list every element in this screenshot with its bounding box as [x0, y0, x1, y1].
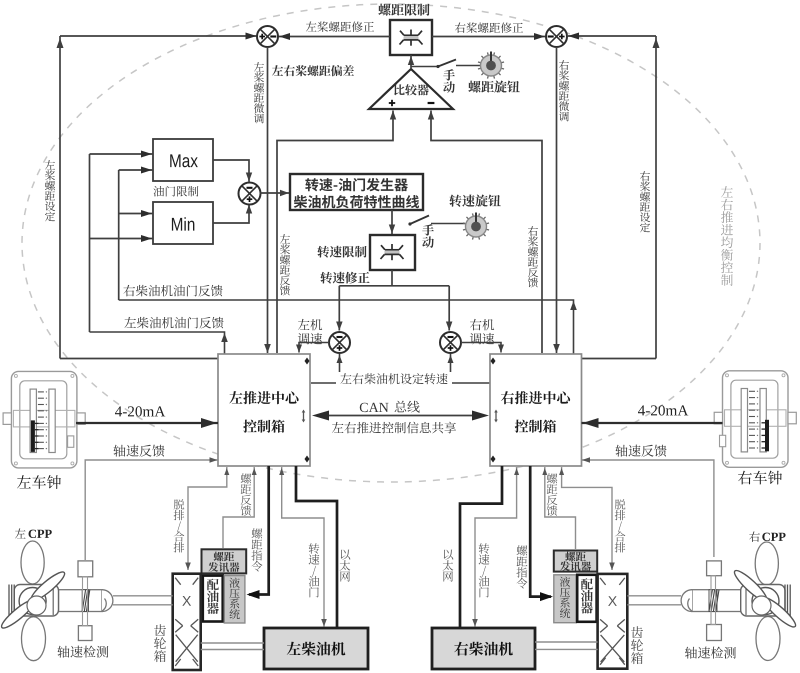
wire 左桨螺距修正 [279, 33, 391, 40]
sensor hatch right [709, 590, 719, 612]
block 转速-油门发生器 / 柴油机负荷特性曲线 [290, 174, 423, 210]
wire 螺距指令 left (thick) [247, 466, 269, 599]
knob 转速旋钮 [463, 213, 489, 240]
label 左桨螺距修正 [306, 21, 374, 32]
propeller left CPP swept blades [0, 569, 68, 632]
wire comparator minus input from right pitch feedback [428, 111, 542, 354]
label 螺距反馈 right [547, 473, 558, 516]
label 左 CPP [15, 528, 52, 538]
summing junction 右机调速 [440, 332, 461, 353]
propeller hub block right [741, 585, 791, 617]
wire throttle junction output [260, 190, 291, 196]
knob 螺距旋钮 [478, 52, 504, 79]
wire Min output [213, 205, 252, 224]
wire 右桨螺距修正 [432, 33, 546, 40]
label 螺距指令 right [516, 545, 527, 588]
label 以太网 right [443, 550, 454, 582]
wire 左机调速 setpoint riser [337, 354, 343, 383]
block 右柴油机 [432, 628, 535, 669]
label 轴速反馈 right [615, 445, 666, 457]
wire generator to speed limit [389, 210, 395, 234]
label 螺距旋钮 [468, 81, 519, 93]
label 左车钟 [17, 475, 61, 489]
label 左右推进均衡控制 [721, 186, 733, 286]
block Min [153, 202, 213, 244]
block Max [153, 139, 213, 181]
device right engine telegraph 右车钟 [714, 371, 796, 468]
propeller left CPP vertical blades [21, 541, 46, 661]
wire 螺距反馈 right (transmitter to box) [542, 467, 575, 549]
label CAN 总线 [360, 401, 420, 413]
wire CAN 总线 [312, 411, 489, 421]
label 脱排/合排 left [174, 499, 185, 552]
shaft cylinder left [59, 590, 173, 612]
wire bus 左柴油机油门反馈 [90, 332, 228, 354]
label 转速旋钮 [449, 195, 500, 207]
sensor 轴速检测 right [707, 561, 722, 641]
wire 4-20mA right [582, 418, 723, 428]
block 转速限制 limiter [370, 235, 415, 270]
wire 右机调速 output [461, 343, 504, 353]
label 脱排/合排 right [615, 499, 626, 552]
label 左右推进控制信息共享 [332, 422, 456, 434]
device left engine telegraph 左车钟 [3, 371, 85, 468]
label 齿轮箱 right [631, 626, 643, 664]
wire 以太网 left (thick) [296, 466, 337, 628]
wire 转速/油门 right [472, 467, 519, 627]
propeller right CPP vertical blades [755, 542, 780, 661]
label 转速修正 [320, 272, 369, 284]
block 螺距发讯器 right [554, 551, 597, 572]
label 4-20mA left [115, 406, 165, 416]
label 螺距指令 left [251, 528, 262, 571]
label 左机调速 [298, 319, 322, 344]
label 左桨螺距微调 [254, 62, 264, 123]
label 手动 (speed) [422, 224, 434, 248]
block gearbox left 齿轮箱 [173, 574, 201, 670]
block gearbox right 齿轮箱 [598, 574, 628, 669]
label 转速限制 [317, 246, 366, 258]
wire engine-gearbox shaft right [535, 642, 598, 649]
label 油门限制 [153, 186, 198, 197]
wire 脱排/合排 right [559, 467, 615, 570]
label 螺距反馈 left [241, 473, 252, 516]
block 左柴油机 [264, 628, 368, 669]
propeller hub block left [9, 585, 59, 617]
wire right pitch-setting trunk 右桨螺距设定 [568, 33, 660, 359]
switch 手动 (speed) [408, 216, 465, 226]
wire 脱排/合排 left [185, 467, 229, 570]
label 右桨螺距修正 [455, 22, 523, 33]
wire 螺距反馈 left (transmitter to box) [223, 467, 257, 548]
wire feedback feeder to Max/Min (inner) [119, 167, 153, 301]
block 右推进中心控制箱 [490, 354, 582, 466]
wire 以太网 right (thick) [460, 466, 502, 628]
wire comparator plus input from left pitch feedback [277, 111, 396, 354]
label 右柴油机油门反馈 [123, 285, 222, 297]
label 左桨螺距反馈 [280, 234, 290, 295]
label 轴速检测 left [57, 646, 108, 658]
block 液压系统 left [224, 576, 245, 623]
wire 左机调速 output [296, 343, 329, 353]
label 右桨螺距设定 [640, 171, 650, 232]
block 液压系统 right [554, 575, 576, 623]
label 轴速反馈 left [113, 445, 164, 457]
wire 转速修正 bus [336, 270, 452, 331]
summing junction 左机调速 [329, 332, 350, 353]
label 轴速检测 right [685, 647, 736, 659]
wire Max output [213, 160, 252, 182]
wire feedback feeder to Max/Min (outer) [90, 151, 154, 333]
wire engine-gearbox shaft left [201, 643, 264, 650]
label 转速/油门 left [309, 543, 320, 597]
propeller right CPP swept blades [731, 567, 798, 630]
label 左桨螺距设定 [45, 160, 55, 221]
block 螺距限制 limiter [390, 20, 432, 55]
label 螺距限制 [378, 4, 429, 16]
label 左右柴油机设定转速 [336, 372, 452, 386]
block 螺距发讯器 left [202, 549, 247, 573]
wire 转速/油门 left [279, 467, 327, 627]
label 左右桨螺距偏差 [272, 65, 354, 76]
wire right junction output to right control box [553, 47, 560, 353]
label 以太网 left [340, 550, 351, 582]
label 右 CPP [749, 531, 785, 542]
sensor hatch left [82, 590, 90, 612]
wire 螺距指令 right (thick) [530, 466, 553, 601]
wire bus 右柴油机油门反馈 [119, 300, 577, 354]
block 配油器 right [577, 575, 596, 622]
summing junction left pitch trim [257, 26, 278, 47]
wire bus 左右柴油机设定转速 [311, 382, 490, 384]
label 手动 (pitch) [443, 69, 455, 93]
switch 手动 (pitch) [411, 60, 480, 69]
comparator 比较器 triangle [369, 69, 453, 109]
dashed balance-control ellipse [22, 4, 760, 482]
summing junction throttle limit [239, 183, 261, 205]
block 配油器 left [203, 576, 223, 622]
wire 轴速反馈 right [582, 457, 714, 557]
wire 轴速反馈 left [85, 457, 218, 560]
wire 右机调速 setpoint riser [448, 354, 454, 383]
wire left junction output to left control box [264, 47, 271, 353]
wire comparator output to 螺距限制 [408, 55, 414, 69]
label 右桨螺距微调 [559, 60, 569, 121]
sensor 轴速检测 left [78, 561, 93, 641]
shaft cylinder right [627, 590, 741, 612]
block 左推进中心控制箱 [218, 354, 310, 466]
label 右桨螺距反馈 [528, 226, 538, 287]
label 右车钟 [738, 471, 782, 485]
summing junction right pitch trim [546, 26, 567, 47]
label 齿轮箱 left [154, 624, 166, 662]
label 转速/油门 right [479, 543, 490, 597]
wire 4-20mA left [76, 418, 218, 428]
wire left pitch-setting trunk 左桨螺距设定 [57, 33, 258, 359]
label 左柴油机油门反馈 [124, 317, 223, 329]
label 右机调速 [470, 319, 494, 344]
label 4-20mA right [638, 405, 688, 415]
